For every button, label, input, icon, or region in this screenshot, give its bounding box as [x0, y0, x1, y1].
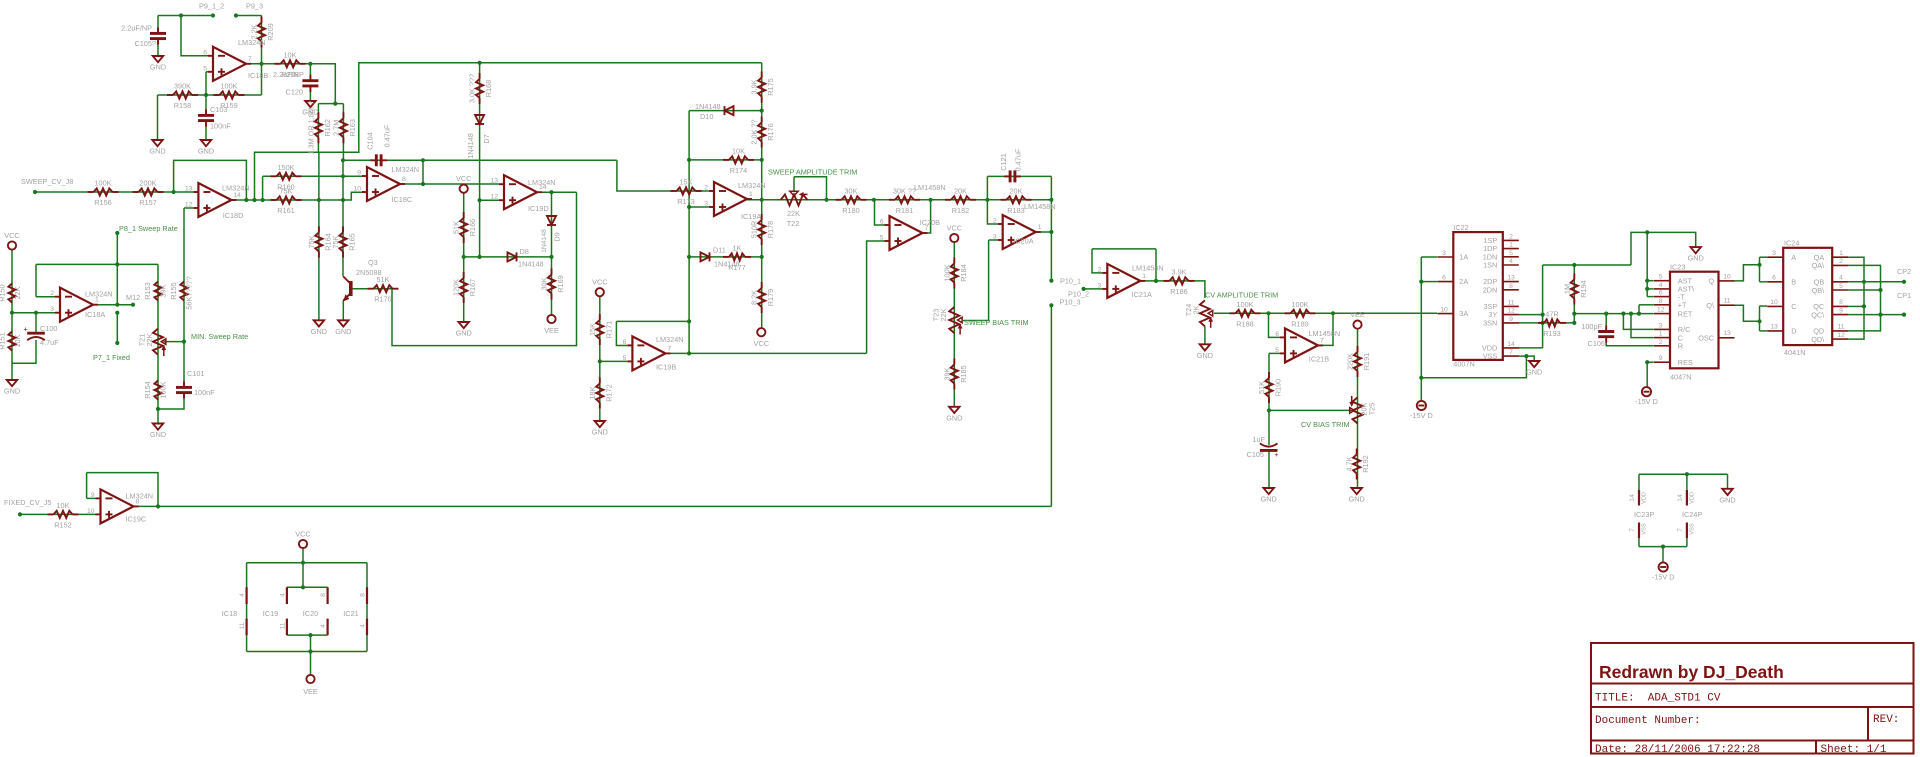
svg-text:GND: GND	[149, 147, 165, 156]
svg-text:IC19: IC19	[263, 609, 278, 618]
svg-text:510R: 510R	[750, 221, 759, 238]
resistor R172	[588, 378, 614, 409]
wire R166/R167 column	[463, 193, 465, 322]
svg-text:13: 13	[1770, 324, 1778, 331]
wire IC19C output long line	[134, 505, 1052, 507]
svg-text:0.47uF: 0.47uF	[1014, 148, 1023, 171]
wire R160 row / IC18C pin 9	[263, 175, 362, 177]
svg-text:4.7K: 4.7K	[1345, 456, 1354, 471]
svg-text:3: 3	[1442, 250, 1446, 257]
op-amp IC18B	[203, 38, 268, 81]
junction	[1878, 288, 1882, 292]
wire power top rail	[247, 562, 367, 564]
IC24 pins	[1767, 257, 1848, 339]
svg-text:10: 10	[1770, 299, 1778, 306]
wire pin B	[1760, 281, 1768, 283]
wire IC22 pin 1A	[1421, 256, 1437, 258]
wire R160 branch	[262, 176, 264, 200]
wire IC19B pin 6	[616, 321, 627, 345]
resistor R186	[1164, 267, 1195, 296]
wire IC18 supply column	[246, 563, 248, 652]
wire C105 top	[157, 16, 159, 33]
svg-text:C120: C120	[286, 88, 303, 97]
ground	[1261, 488, 1277, 504]
svg-text:13: 13	[1723, 330, 1731, 337]
wire IC21 supply column	[366, 563, 368, 652]
svg-text:390K: 390K	[174, 82, 191, 91]
svg-text:6: 6	[1275, 331, 1279, 338]
node P10_1	[1049, 279, 1053, 283]
wire IC24P pin 7	[1686, 538, 1688, 547]
node FIXED_CV_J5	[18, 512, 22, 516]
resistor R163	[331, 112, 357, 143]
svg-text:39K: 39K	[942, 367, 951, 380]
svg-text:2.2uF/NP: 2.2uF/NP	[273, 70, 304, 79]
svg-text:R176: R176	[766, 123, 775, 140]
wire R194 top rail	[1543, 264, 1631, 266]
junction	[421, 158, 425, 162]
resistor R166	[452, 212, 478, 243]
svg-text:A: A	[1791, 253, 1796, 262]
svg-text:1: 1	[1659, 331, 1663, 338]
junction	[1645, 230, 1649, 234]
svg-text:R172: R172	[604, 384, 613, 401]
wire IC18A feedback left	[35, 264, 37, 296]
junction	[872, 198, 876, 202]
svg-text:-15V D: -15V D	[1410, 411, 1433, 420]
svg-text:100K: 100K	[1291, 300, 1308, 309]
junction	[687, 351, 691, 355]
wire CP2 row	[1848, 281, 1904, 283]
wire to -15V	[1662, 547, 1664, 563]
svg-text:D10: D10	[700, 112, 713, 121]
junction	[244, 198, 248, 202]
resistor R170	[368, 275, 399, 304]
svg-text:C105: C105	[1247, 450, 1264, 459]
junction	[1266, 311, 1270, 315]
junction	[1541, 313, 1545, 317]
wire QA-bar chain	[1848, 265, 1880, 331]
svg-text:100K: 100K	[1236, 300, 1253, 309]
IC23P power pins	[1639, 490, 1687, 538]
power VEE (block)	[306, 675, 314, 683]
diode D9	[547, 216, 556, 225]
wire IC21A output / R186 row	[1140, 281, 1205, 298]
svg-text:R166: R166	[468, 219, 477, 236]
junction	[1621, 312, 1625, 316]
svg-text:20K: 20K	[954, 186, 967, 195]
svg-text:R153: R153	[143, 282, 152, 299]
junction	[1862, 280, 1866, 284]
wire R175/R176 column	[761, 63, 763, 200]
op-amp IC18C	[353, 165, 419, 204]
capacitor C104	[370, 154, 387, 166]
wire R162/R163 top rail	[318, 103, 343, 105]
wire A/B tie	[1759, 257, 1761, 282]
svg-text:R186: R186	[1170, 287, 1187, 296]
svg-text:C101: C101	[187, 369, 204, 378]
svg-text:M12: M12	[126, 293, 140, 302]
svg-text:51K: 51K	[452, 221, 461, 234]
resistor R157	[133, 179, 164, 208]
wire to pin +T	[1638, 305, 1640, 314]
svg-text:100K: 100K	[942, 264, 951, 281]
ground	[302, 101, 318, 117]
svg-text:SWEEP AMPLITUDE TRIM: SWEEP AMPLITUDE TRIM	[768, 168, 857, 177]
svg-text:IC20A: IC20A	[1013, 237, 1033, 246]
resistor R183	[1001, 186, 1032, 215]
svg-text:C121: C121	[999, 153, 1008, 170]
junction	[760, 198, 764, 202]
svg-text:+T: +T	[1678, 301, 1687, 310]
wire R162-R164 column	[318, 152, 320, 320]
svg-text:LM324N: LM324N	[392, 165, 420, 174]
capacitor C106	[1598, 326, 1614, 343]
wire C106 top rail to RET	[1574, 313, 1654, 315]
wire IC19C feedback top	[87, 473, 158, 507]
svg-text:IC23: IC23	[1670, 263, 1685, 272]
wire R163-R165 column	[342, 160, 344, 276]
svg-text:VEE: VEE	[544, 326, 559, 335]
svg-text:18K: 18K	[588, 386, 597, 399]
svg-text:IC20B: IC20B	[920, 218, 940, 227]
ground	[4, 380, 20, 396]
diode D7	[475, 115, 484, 124]
wire T23 wiper to IC20A	[963, 240, 989, 321]
svg-text:5: 5	[203, 65, 207, 72]
svg-text:IC18C: IC18C	[392, 195, 413, 204]
wire IC19C feedback left	[86, 473, 88, 499]
svg-text:7: 7	[1509, 349, 1513, 356]
svg-text:P8_1 Sweep Rate: P8_1 Sweep Rate	[119, 224, 178, 233]
junction	[1629, 312, 1633, 316]
wire to IC20B pin 5	[867, 241, 885, 353]
svg-text:R: R	[1678, 342, 1683, 351]
op-amp IC18D	[185, 183, 250, 220]
capacitor C121	[1004, 170, 1021, 182]
svg-text:75K: 75K	[280, 187, 293, 196]
svg-text:GND: GND	[335, 327, 351, 336]
resistor R165	[331, 227, 357, 258]
svg-text:56K?????: 56K?????	[185, 276, 194, 309]
wire R150/R151 column	[11, 250, 13, 381]
svg-text:P10_1: P10_1	[1060, 277, 1081, 286]
wire R163 run	[342, 104, 344, 161]
svg-text:3: 3	[1659, 322, 1663, 329]
wire D11/R177 row	[689, 256, 762, 258]
IC U23 4047N box	[1670, 272, 1719, 369]
svg-text:Q\: Q\	[1706, 301, 1715, 310]
svg-text:3: 3	[50, 306, 54, 313]
node SWEEP_CV_J8	[33, 190, 37, 194]
ground	[1526, 361, 1542, 377]
wire T24 to ground	[1204, 326, 1206, 344]
svg-text:3: 3	[1098, 282, 1102, 289]
svg-text:R190: R190	[1274, 379, 1283, 396]
svg-text:FIXED_CV_J5: FIXED_CV_J5	[4, 498, 51, 507]
wire to pin R/C	[1623, 314, 1653, 330]
svg-text:VSS: VSS	[1690, 523, 1696, 534]
wire IC24P pin 14	[1686, 474, 1688, 490]
wire CV row (T24 wiper to IC22 3A)	[1214, 312, 1437, 314]
resistor R188	[1230, 300, 1261, 329]
wire to IC18B pin 6	[181, 16, 208, 56]
wire R183 row	[987, 199, 1051, 201]
wire IC19B output	[665, 352, 866, 354]
wire IC18A pin 3 row	[12, 312, 56, 314]
svg-text:200K: 200K	[139, 179, 156, 188]
capacitor C105	[150, 27, 166, 44]
wire R153/T21/R154 column	[157, 264, 159, 409]
svg-text:8: 8	[1509, 283, 1513, 290]
svg-text:IC21: IC21	[343, 609, 358, 618]
wire pin AST-bar	[1647, 288, 1654, 290]
svg-text:51K: 51K	[377, 275, 390, 284]
svg-text:Q: Q	[1708, 277, 1714, 286]
svg-text:R170: R170	[374, 295, 391, 304]
svg-text:100nF: 100nF	[210, 122, 231, 131]
svg-text:R168: R168	[484, 80, 493, 97]
resistor R160	[271, 163, 302, 192]
resistor R189	[1285, 300, 1316, 329]
power VCC (R166)	[456, 174, 471, 193]
svg-text:2: 2	[993, 218, 997, 225]
wire IC19D output	[537, 191, 577, 193]
wire QB-bar tap	[1848, 289, 1880, 291]
svg-text:20K: 20K	[1010, 186, 1023, 195]
wire C103 to ground	[205, 122, 207, 141]
trimmer T23	[949, 307, 962, 335]
svg-text:LM324N: LM324N	[238, 38, 266, 47]
svg-text:R155: R155	[169, 282, 178, 299]
svg-text:R158: R158	[174, 101, 191, 110]
svg-text:R188: R188	[1236, 319, 1253, 328]
resistor R191	[1346, 346, 1372, 377]
svg-text:C100: C100	[40, 324, 57, 333]
junction	[252, 198, 256, 202]
wire T21 wiper / MIN sweep rate	[164, 341, 185, 343]
wire IC21A pin 3 / P10_2	[1084, 288, 1103, 290]
svg-text:6: 6	[880, 219, 884, 226]
svg-text:6: 6	[203, 49, 207, 56]
svg-text:IC18: IC18	[222, 609, 237, 618]
junction	[985, 198, 989, 202]
junction	[687, 319, 691, 323]
wire IC19C pin 9	[87, 497, 96, 499]
svg-text:R171: R171	[604, 321, 613, 338]
wire C/D tie	[1759, 306, 1761, 331]
wire IC23P pin 7	[1638, 538, 1640, 547]
wire R162 run	[317, 104, 319, 153]
wire C105 to ground	[157, 40, 159, 57]
svg-text:LM324N: LM324N	[126, 492, 154, 501]
svg-text:VCC: VCC	[592, 278, 607, 287]
wire C101 top	[183, 342, 185, 388]
svg-text:4047N: 4047N	[1670, 373, 1692, 382]
junction	[1419, 280, 1423, 284]
op-amp IC19B	[623, 335, 684, 372]
ground	[198, 140, 214, 156]
junction	[760, 255, 764, 259]
svg-text:GND: GND	[1719, 495, 1735, 504]
svg-text:2.0K ??: 2.0K ??	[750, 119, 759, 144]
svg-text:Q3: Q3	[368, 258, 378, 267]
junction	[341, 158, 345, 162]
wire D10 row	[689, 110, 762, 112]
svg-text:8: 8	[320, 593, 327, 597]
wire IC20B pin 6 feedback	[875, 200, 885, 225]
junction	[687, 255, 691, 259]
node CP2	[1902, 280, 1906, 284]
svg-text:R192: R192	[1361, 455, 1370, 472]
junction	[308, 633, 312, 637]
svg-text:GND: GND	[1197, 351, 1213, 360]
op-amp IC18A	[50, 288, 112, 322]
ground	[1197, 344, 1213, 360]
svg-text:C105?: C105?	[134, 39, 156, 48]
svg-text:13: 13	[490, 178, 498, 185]
wire IC18C output to IC19D pin 13	[400, 183, 499, 185]
wire R194 run	[1573, 265, 1575, 323]
resistor R161	[271, 187, 302, 216]
svg-text:2: 2	[50, 290, 54, 297]
svg-text:4.7uF: 4.7uF	[40, 338, 59, 347]
svg-text:47R: 47R	[1545, 309, 1558, 318]
svg-text:9: 9	[1839, 307, 1843, 314]
junction	[34, 311, 38, 315]
junction	[1154, 279, 1158, 283]
junction	[478, 61, 482, 65]
svg-text:2: 2	[1659, 339, 1663, 346]
svg-text:SWEEP_CV_J8: SWEEP_CV_J8	[21, 177, 73, 186]
svg-text:T22: T22	[787, 219, 800, 228]
svg-text:8: 8	[1839, 299, 1843, 306]
resistor R174	[723, 146, 754, 175]
svg-text:IC18A: IC18A	[85, 310, 105, 319]
svg-text:MIN. Sweep Rate: MIN. Sweep Rate	[191, 332, 248, 341]
wire IC18D pin 12	[184, 207, 193, 209]
IC U24 4041N box	[1783, 248, 1832, 345]
wire power bottom rail	[247, 651, 367, 653]
svg-text:GND: GND	[4, 387, 20, 396]
ground	[150, 424, 166, 440]
svg-text:R191: R191	[1362, 353, 1371, 370]
svg-text:SWEEP BIAS TRIM: SWEEP BIAS TRIM	[964, 318, 1029, 327]
svg-text:R167: R167	[468, 279, 477, 296]
junction	[549, 255, 553, 259]
svg-text:10K: 10K	[13, 334, 22, 347]
svg-text:3.9K: 3.9K	[1171, 267, 1186, 276]
svg-text:2.2uF/NP: 2.2uF/NP	[121, 24, 152, 33]
junction	[687, 158, 691, 162]
svg-text:51K: 51K	[1257, 381, 1266, 394]
wire IC21A feedback right	[1155, 249, 1157, 281]
wire to T21 wiper	[183, 208, 185, 342]
junction	[179, 13, 183, 17]
wire IC20A output	[1036, 231, 1052, 233]
wire inner bottom rail	[287, 634, 328, 636]
wire -15V column	[1420, 257, 1422, 401]
svg-text:R193: R193	[1543, 329, 1560, 338]
svg-text:LM1458N: LM1458N	[1309, 329, 1341, 338]
wire IC22 pin 2A	[1421, 281, 1437, 283]
svg-text:Date: 28/11/2006 17:22:28: Date: 28/11/2006 17:22:28	[1595, 744, 1760, 756]
svg-text:6: 6	[1659, 290, 1663, 297]
wire C120 top	[309, 64, 311, 81]
resistor R208	[275, 50, 306, 79]
wire IC18A output / M12	[93, 304, 133, 306]
svg-text:11: 11	[239, 622, 246, 629]
ground	[335, 320, 351, 336]
junction	[341, 198, 345, 202]
svg-text:13: 13	[185, 186, 193, 193]
wire VCC drop	[302, 548, 304, 587]
junction	[1878, 313, 1882, 317]
wire IC19A pin 3	[689, 206, 709, 208]
wire pin C	[1760, 305, 1768, 307]
svg-text:5: 5	[1839, 283, 1843, 290]
svg-text:15K: 15K	[588, 323, 597, 336]
power VCC (R150)	[4, 231, 19, 250]
junction	[687, 205, 691, 209]
wire C120 to ground	[309, 86, 311, 101]
junction	[204, 93, 208, 97]
wire Q to A/B	[1735, 265, 1760, 281]
svg-text:D7: D7	[482, 134, 491, 143]
junction	[156, 407, 160, 411]
svg-text:REV:: REV:	[1873, 714, 1899, 726]
svg-text:VDD: VDD	[1690, 492, 1696, 504]
svg-text:22K: 22K	[13, 286, 22, 299]
junction	[1419, 376, 1423, 380]
svg-text:4: 4	[360, 624, 367, 628]
svg-text:QA\: QA\	[1812, 261, 1826, 270]
wire R193 row	[1543, 322, 1575, 324]
svg-text:R161: R161	[277, 206, 294, 215]
svg-text:TITLE: ADA_STD1 CV: TITLE: ADA_STD1 CV	[1595, 693, 1721, 705]
node P10_3	[1049, 303, 1053, 307]
svg-text:6: 6	[1772, 275, 1776, 282]
svg-text:GND: GND	[1688, 254, 1704, 263]
svg-text:3SN: 3SN	[1483, 318, 1497, 327]
junction	[10, 311, 14, 315]
wire logic VSS rail	[1639, 546, 1687, 548]
wire logic VDD rail	[1639, 473, 1728, 475]
junction	[929, 198, 933, 202]
svg-text:5: 5	[1659, 274, 1663, 281]
ground	[946, 407, 962, 423]
svg-text:VEE: VEE	[1350, 310, 1365, 319]
svg-text:VCC: VCC	[295, 530, 310, 539]
svg-text:10: 10	[1723, 273, 1731, 280]
wire IC22 VDD	[1519, 347, 1543, 349]
svg-text:Document Number:: Document Number:	[1595, 715, 1701, 727]
svg-text:3A: 3A	[1459, 309, 1468, 318]
svg-text:LM1458N: LM1458N	[1132, 264, 1164, 273]
svg-text:1: 1	[1142, 273, 1146, 280]
junction	[1685, 472, 1689, 476]
svg-text:R152: R152	[54, 520, 71, 529]
svg-text:C: C	[1791, 302, 1796, 311]
wire IC22 VSS to ground	[1519, 356, 1535, 361]
svg-text:10: 10	[87, 508, 95, 515]
op-amp IC20B	[880, 183, 946, 250]
junction	[1524, 354, 1528, 358]
resistor R151	[8, 332, 15, 351]
resistor R169	[540, 269, 566, 300]
svg-text:1N4148: 1N4148	[518, 260, 544, 269]
svg-text:5: 5	[880, 235, 884, 242]
